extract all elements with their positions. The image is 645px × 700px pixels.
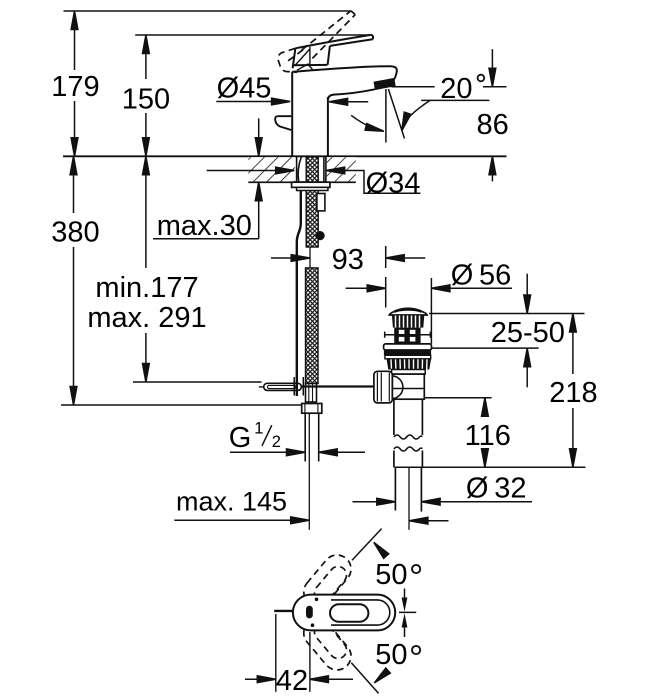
svg-text:Ø 56: Ø 56 bbox=[451, 260, 512, 292]
50 deg upper bbox=[352, 529, 389, 561]
knurled band 1 bbox=[392, 315, 424, 328]
svg-text:Ø45: Ø45 bbox=[217, 73, 272, 105]
angle baseline ticks bbox=[399, 589, 416, 638]
right swing arc + arrow bbox=[402, 100, 430, 130]
flange top ring bbox=[384, 344, 432, 350]
reference line hose ends (380 bottom, y=405) bbox=[61, 404, 302, 406]
reference line min/max bottom (y=382) bbox=[133, 381, 262, 383]
svg-text:min.177: min.177 bbox=[95, 272, 198, 304]
spout underside bbox=[328, 89, 375, 99]
tailpipe upper bbox=[394, 399, 423, 467]
drain body tube bbox=[392, 374, 424, 399]
handle block left edge bbox=[293, 48, 296, 68]
body right edge bbox=[327, 97, 329, 156]
svg-text:Ø 32: Ø 32 bbox=[466, 473, 527, 505]
extension line top (dashed handle tip level, y=11) bbox=[64, 10, 351, 12]
svg-text:20: 20 bbox=[440, 73, 472, 105]
spout top edge bbox=[292, 66, 396, 72]
small slot (black) bbox=[306, 606, 313, 619]
body left edge bbox=[291, 72, 293, 157]
svg-text:G: G bbox=[229, 422, 252, 454]
cap top under handle bbox=[294, 64, 328, 66]
eyelet outer bbox=[264, 383, 302, 390]
svg-text:Ø34: Ø34 bbox=[366, 168, 421, 200]
mounting nut bar 2 bbox=[297, 187, 328, 190]
washer line bbox=[385, 334, 431, 336]
plug cap dome bbox=[389, 310, 427, 315]
stream line (20 deg) bbox=[388, 89, 404, 138]
ball joint arc bbox=[392, 376, 403, 399]
supply hose (braided) lower bbox=[306, 268, 319, 384]
second hose end (dot) bbox=[316, 231, 325, 240]
left swing arc + arrow bbox=[351, 115, 383, 131]
svg-text:218: 218 bbox=[549, 377, 597, 409]
rod in plan bbox=[274, 610, 293, 612]
flange white band bbox=[385, 355, 431, 359]
svg-text:93: 93 bbox=[332, 244, 364, 276]
50 deg lower bbox=[351, 663, 390, 694]
svg-text:179: 179 bbox=[51, 71, 99, 103]
handle blade tip bbox=[372, 35, 374, 39]
handle internal lines bbox=[309, 47, 311, 65]
svg-text:max. 291: max. 291 bbox=[87, 302, 206, 334]
knurled collar bbox=[387, 359, 432, 370]
horizontal linkage rod bbox=[301, 385, 374, 387]
G1/2 hex nut bbox=[302, 404, 322, 414]
G1/2 threaded tailpiece bbox=[305, 413, 319, 530]
tailpipe lower bbox=[395, 467, 421, 530]
extension line solid handle tip level (y=35) bbox=[135, 34, 371, 36]
handle blade bottom bbox=[330, 39, 373, 46]
svg-text:380: 380 bbox=[51, 217, 99, 249]
aerator bbox=[374, 79, 395, 90]
svg-text:2: 2 bbox=[272, 433, 281, 451]
svg-text:1: 1 bbox=[254, 420, 263, 438]
svg-text:150: 150 bbox=[122, 83, 170, 115]
hose ferrule bbox=[306, 384, 317, 403]
plumb line bbox=[385, 89, 387, 142]
collar step bbox=[392, 370, 426, 375]
inner contour right bbox=[331, 600, 390, 625]
mounting nut bar 1 bbox=[292, 182, 330, 187]
svg-text:116: 116 bbox=[465, 420, 511, 452]
spout right tip bbox=[394, 69, 397, 80]
svg-text:25-50: 25-50 bbox=[491, 317, 565, 349]
svg-text:50: 50 bbox=[375, 639, 407, 671]
deck top line bbox=[63, 155, 507, 157]
svg-text:max.30: max.30 bbox=[157, 210, 252, 242]
svg-text:42: 42 bbox=[276, 665, 308, 697]
deck bottom line bbox=[248, 181, 355, 183]
hose inner line between braid parts bbox=[309, 247, 311, 268]
inner oval (handle hole) bbox=[330, 604, 368, 622]
flange black band bbox=[384, 350, 431, 355]
eyelet slot bbox=[268, 385, 296, 388]
svg-text:86: 86 bbox=[476, 109, 508, 141]
small arrow to pipe centerline bbox=[409, 520, 448, 522]
pop-up rod knob on body left bbox=[275, 116, 291, 130]
clamp plates bbox=[293, 377, 295, 396]
dashed handle raised position bbox=[278, 11, 355, 73]
handle blade top bbox=[295, 35, 371, 49]
pivot dots bbox=[315, 598, 319, 602]
pop-up rod (vertical) bbox=[297, 190, 301, 396]
handle neck right bbox=[328, 46, 330, 65]
second hose stub fitting bbox=[317, 194, 325, 211]
rod tail left bbox=[259, 386, 264, 388]
svg-text:max. 145: max. 145 bbox=[176, 487, 287, 517]
rod tee nut bbox=[374, 371, 392, 403]
plug stem block bbox=[394, 328, 420, 344]
solid capsule (plan view of faucet) bbox=[293, 595, 395, 631]
svg-text:50: 50 bbox=[375, 559, 407, 591]
dashed rotated lever positions bbox=[298, 549, 357, 675]
